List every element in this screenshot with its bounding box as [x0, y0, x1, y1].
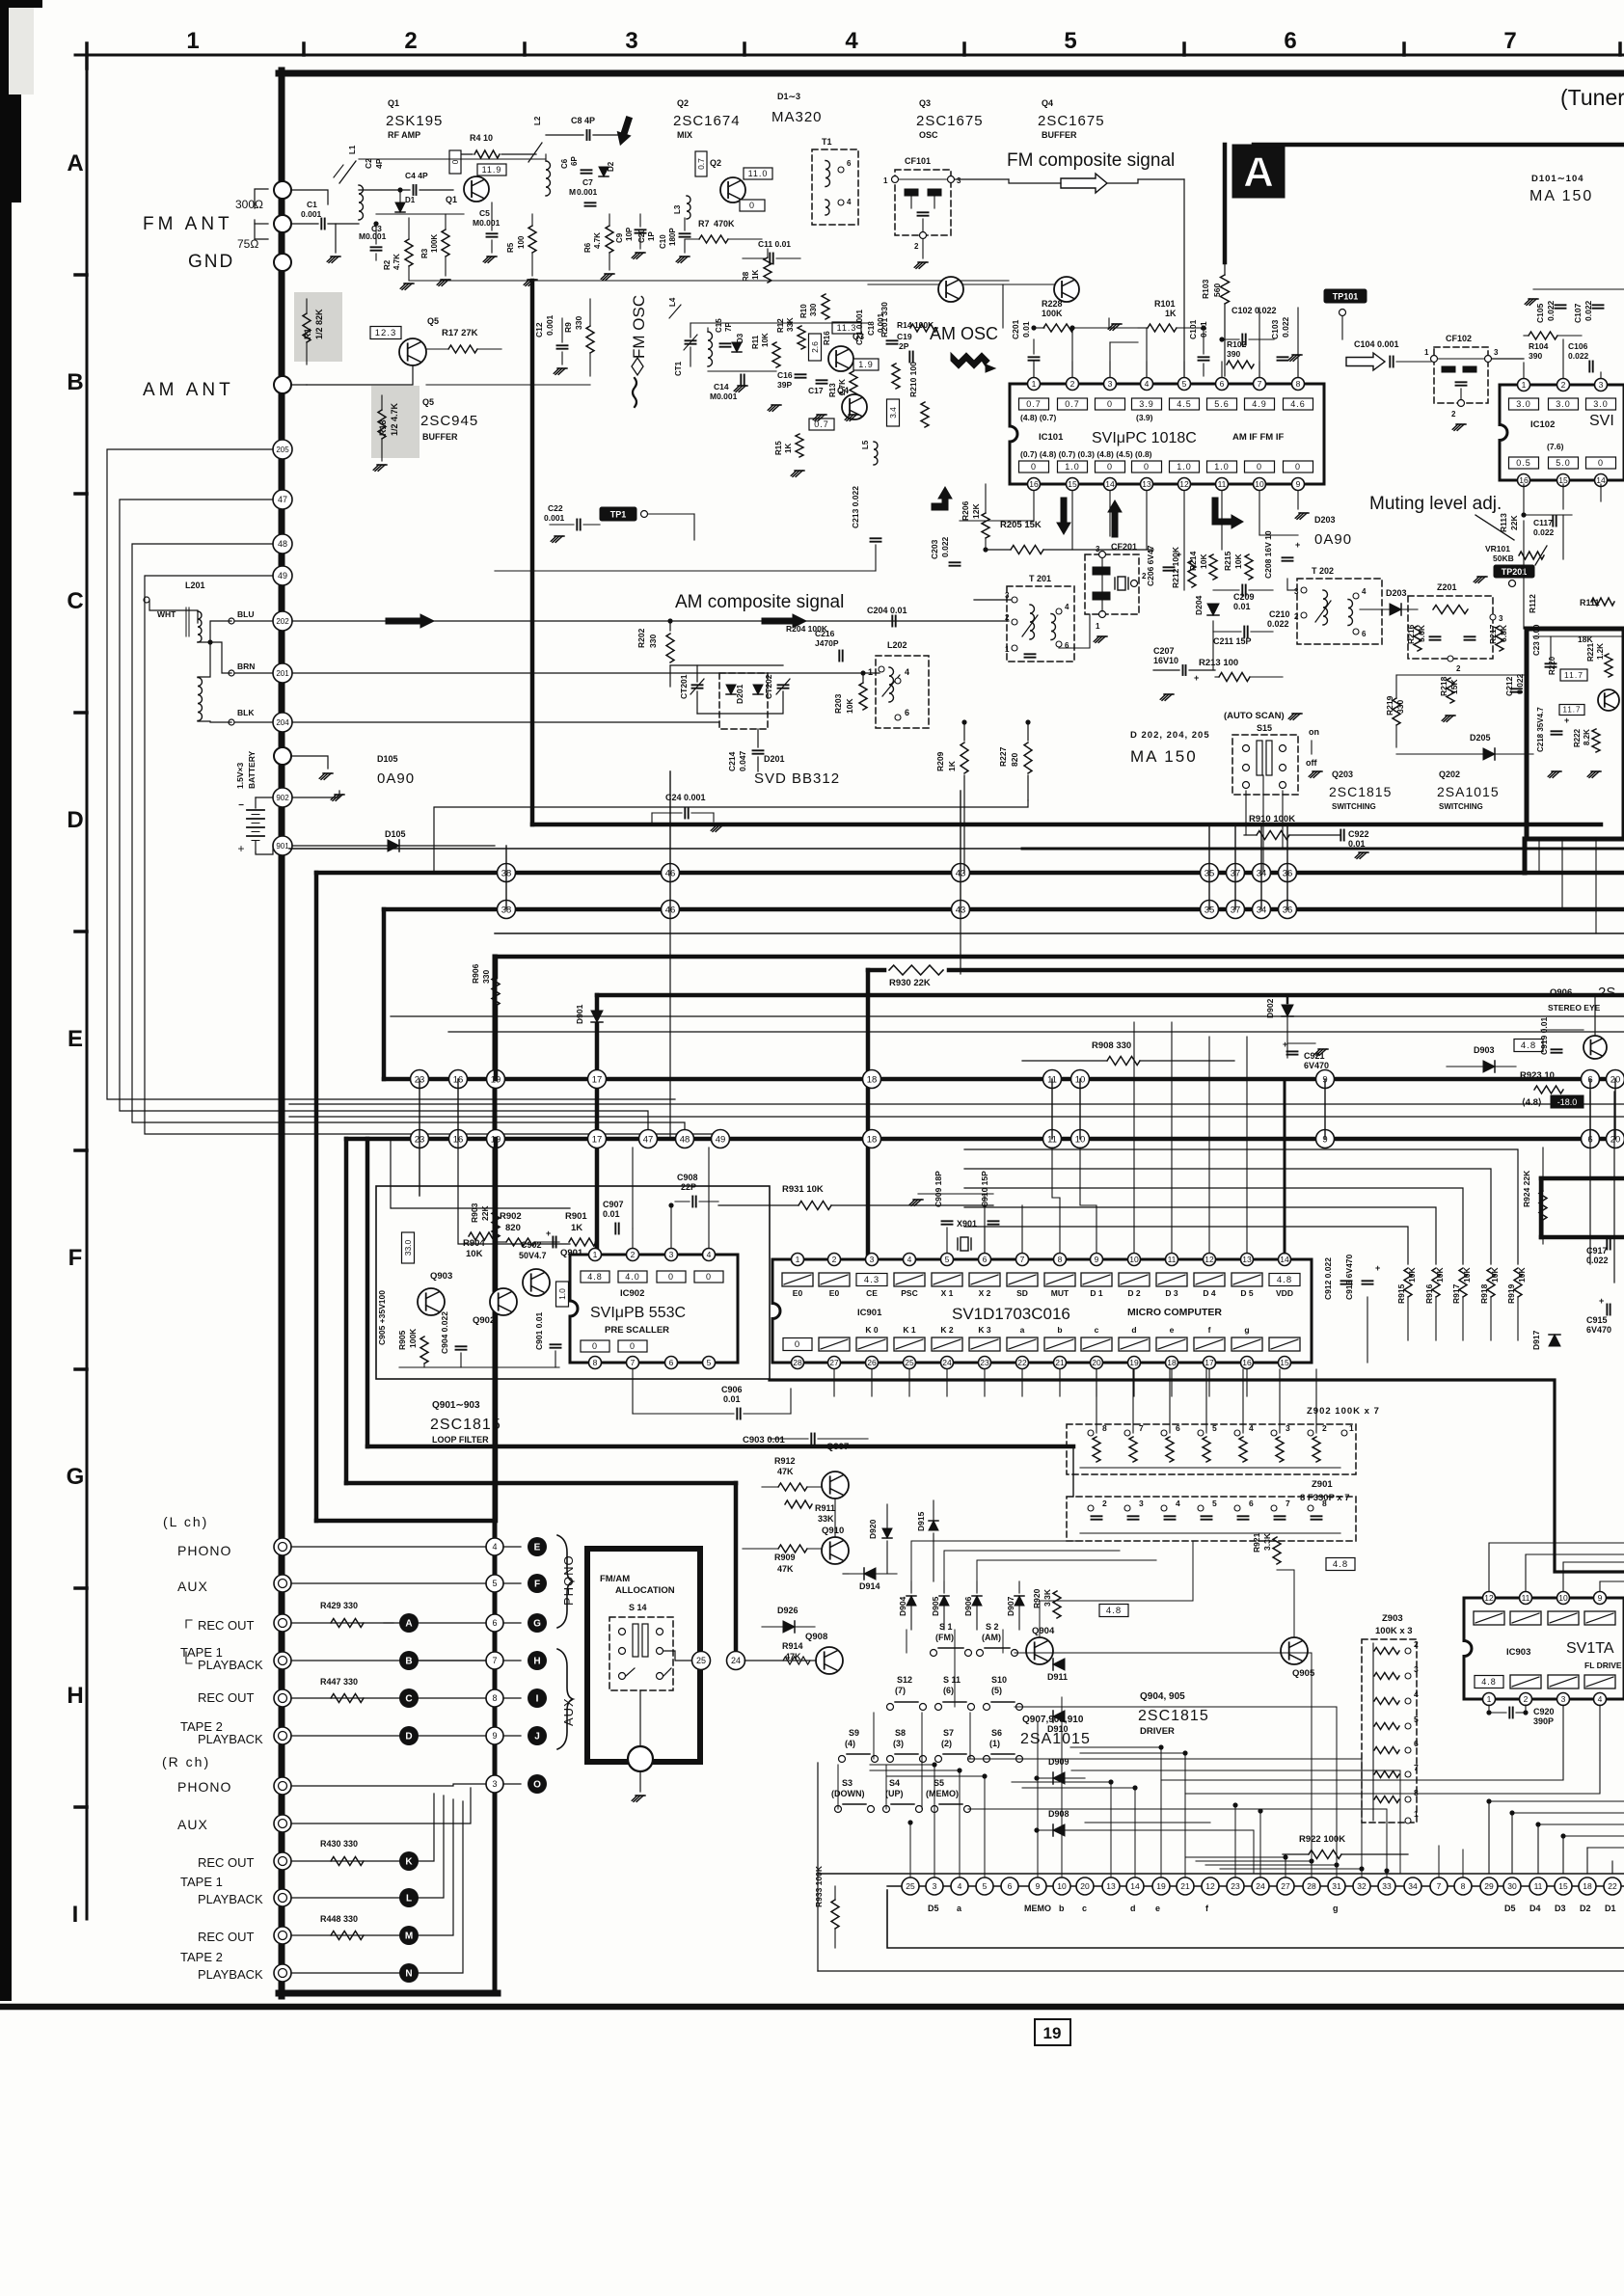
ground: [319, 773, 331, 779]
svg-text:R911: R911: [815, 1503, 835, 1513]
svg-text:1: 1: [1487, 1694, 1492, 1704]
svg-text:R919: R919: [1506, 1283, 1516, 1304]
pin row riser wires: [909, 1823, 911, 1877]
svg-text:SWITCHING: SWITCHING: [1439, 802, 1483, 811]
value 11.3: [832, 322, 861, 334]
svg-text:D904: D904: [898, 1596, 907, 1616]
svg-text:10: 10: [1129, 1255, 1139, 1264]
IC903 pins bottom: [1483, 1693, 1496, 1706]
svg-text:C901 0.01: C901 0.01: [534, 1312, 544, 1350]
svg-text:R910 100K: R910 100K: [1249, 814, 1295, 824]
svg-text:H: H: [533, 1657, 540, 1667]
svg-text:(6): (6): [943, 1686, 954, 1695]
svg-text:b: b: [1059, 1904, 1065, 1913]
svg-text:0.01: 0.01: [1348, 839, 1366, 849]
svg-text:100K: 100K: [1042, 309, 1063, 318]
wire PB2 R: [291, 1972, 399, 1974]
wire CF102 out: [1492, 358, 1524, 360]
svg-text:4: 4: [1249, 1423, 1254, 1433]
svg-text:10P: 10P: [625, 227, 634, 241]
svg-text:(4): (4): [845, 1739, 855, 1748]
svg-text:f: f: [1208, 1325, 1211, 1335]
node C black: [399, 1688, 419, 1708]
svg-text:FM ANT: FM ANT: [143, 214, 233, 234]
IC102 pin wires: [1523, 363, 1525, 378]
value 1.9: [853, 359, 879, 370]
svg-text:1: 1: [186, 28, 199, 54]
wires T201: [974, 599, 1011, 601]
svg-text:24: 24: [731, 1656, 741, 1665]
svg-text:2SC1675: 2SC1675: [916, 113, 984, 129]
svg-text:6V470: 6V470: [1304, 1061, 1329, 1070]
svg-text:REC OUT: REC OUT: [198, 1690, 255, 1705]
page edge black strip: [0, 0, 12, 2001]
svg-text:PHONO: PHONO: [561, 1554, 576, 1606]
svg-text:901: 901: [276, 842, 289, 851]
IC902 box: [570, 1255, 738, 1363]
L201 core: [188, 608, 190, 636]
wires am detector to bus: [1152, 550, 1154, 554]
svg-text:6P: 6P: [570, 156, 579, 166]
svg-text:100K x 3: 100K x 3: [1375, 1626, 1413, 1636]
svg-text:26: 26: [867, 1358, 877, 1367]
svg-text:Q2: Q2: [710, 158, 721, 168]
svg-text:4: 4: [492, 1542, 497, 1552]
wires S15 to bus: [1245, 791, 1247, 835]
svg-text:16: 16: [1242, 1358, 1252, 1367]
svg-text:(5): (5): [991, 1686, 1002, 1695]
svg-text:8.2K: 8.2K: [1583, 729, 1591, 745]
svg-text:R2: R2: [383, 259, 392, 270]
value 4.8 b: [1326, 1558, 1355, 1571]
left ruler line: [86, 55, 89, 1919]
svg-text:2: 2: [631, 1250, 636, 1259]
svg-text:C209: C209: [1233, 592, 1255, 602]
svg-text:D917: D917: [1531, 1330, 1541, 1350]
svg-text:390: 390: [1227, 349, 1240, 359]
wires jack to column: [291, 1546, 486, 1548]
row A wire Q1 gate: [376, 213, 464, 215]
AM composite black arrow 1: [386, 614, 434, 628]
svg-text:e: e: [1170, 1325, 1175, 1335]
ground S15: [1309, 771, 1320, 777]
bus circles row3: [411, 1070, 429, 1089]
svg-text:4: 4: [1065, 603, 1069, 611]
svg-text:330: 330: [574, 316, 583, 330]
svg-text:D902: D902: [1265, 998, 1275, 1018]
bus row2 drop x=398: [382, 909, 387, 1079]
terminal FM ANT 300: [274, 181, 291, 199]
ground C1: [335, 224, 337, 253]
thin staircase below row4 left: [346, 1195, 420, 1197]
svg-text:180P: 180P: [668, 228, 677, 246]
svg-text:CT1: CT1: [674, 361, 683, 376]
svg-text:0.022: 0.022: [1586, 1256, 1609, 1265]
svg-text:22K: 22K: [480, 1205, 490, 1221]
svg-text:CF101: CF101: [905, 156, 931, 166]
svg-text:BLK: BLK: [237, 708, 255, 717]
left ruler tick: [75, 492, 87, 496]
svg-text:(2): (2): [941, 1739, 952, 1748]
IC102 box: [1500, 385, 1624, 480]
svg-text:19: 19: [1156, 1881, 1166, 1891]
svg-text:2: 2: [1005, 613, 1010, 622]
svg-text:D5: D5: [1504, 1904, 1516, 1913]
svg-text:D105: D105: [377, 754, 398, 764]
svg-text:6V470: 6V470: [1586, 1325, 1611, 1335]
svg-text:1P: 1P: [647, 231, 656, 241]
svg-text:0.5: 0.5: [1516, 458, 1531, 468]
value 0.7 q4: [809, 419, 834, 430]
svg-text:47K: 47K: [777, 1467, 794, 1476]
svg-text:4.8: 4.8: [587, 1272, 603, 1282]
svg-text:R221: R221: [1586, 642, 1595, 662]
value 1.0: [556, 1282, 569, 1307]
IC102 pins bottom: [1518, 474, 1530, 487]
bus circles row1: [498, 864, 516, 882]
battery terminal: [274, 747, 291, 765]
jack PB2 R: [274, 1964, 291, 1982]
connector 201: [273, 663, 292, 683]
wire BLU to 202: [229, 618, 234, 624]
svg-text:G: G: [67, 1464, 85, 1490]
svg-text:330: 330: [481, 970, 491, 984]
svg-text:4.8: 4.8: [1481, 1677, 1497, 1687]
svg-text:5: 5: [492, 1579, 497, 1588]
svg-text:902: 902: [276, 794, 289, 802]
wire 43 drop: [960, 909, 961, 974]
svg-text:(4.8) (0.7): (4.8) (0.7): [1020, 413, 1056, 422]
value 11.0: [744, 168, 772, 179]
wire BLK to 204: [229, 719, 234, 725]
Q905 wires: [1293, 1570, 1295, 1637]
svg-text:205: 205: [276, 446, 289, 454]
bottom pin row circles: [902, 1877, 919, 1895]
connector 47: [273, 490, 292, 509]
svg-text:820: 820: [505, 1223, 521, 1233]
svg-text:C22: C22: [548, 503, 563, 513]
row A AGC wire: [409, 280, 1009, 282]
svg-text:TP101: TP101: [1333, 292, 1359, 302]
svg-text:1K: 1K: [784, 444, 793, 453]
svg-text:2: 2: [1456, 664, 1461, 673]
svg-text:4.0: 4.0: [625, 1272, 640, 1282]
svg-text:C9: C9: [615, 232, 624, 243]
svg-text:0.022: 0.022: [1533, 527, 1555, 537]
svg-text:Z201: Z201: [1437, 582, 1457, 592]
svg-text:5: 5: [1064, 28, 1076, 54]
svg-text:0.001: 0.001: [577, 187, 598, 197]
svg-text:R204 100K: R204 100K: [786, 624, 828, 634]
svg-text:Q3: Q3: [919, 98, 931, 108]
svg-text:D3: D3: [1555, 1904, 1566, 1913]
IC901 pins top: [792, 1254, 804, 1266]
bus row1 drop x=328: [314, 873, 319, 1521]
value 33.0: [402, 1232, 415, 1263]
svg-text:0.001: 0.001: [545, 314, 555, 336]
ground right box: [1548, 771, 1559, 777]
bus thick y=1032: [597, 993, 1624, 998]
IC101 voltage boxes bottom: [1019, 461, 1049, 473]
bus FM IF horizontal y=855: [532, 823, 1601, 827]
svg-text:+: +: [1194, 673, 1199, 683]
transistor Q right: [1598, 689, 1619, 711]
svg-text:D105: D105: [385, 829, 406, 839]
svg-text:AUX: AUX: [177, 1817, 208, 1832]
svg-text:11.3: 11.3: [837, 323, 857, 333]
svg-text:C212: C212: [1504, 676, 1514, 696]
wire 202 row: [292, 620, 1009, 622]
value 11.9: [477, 164, 506, 176]
svg-text:4P: 4P: [374, 158, 384, 169]
svg-text:DRIVER: DRIVER: [1140, 1726, 1175, 1737]
transistor Q907: [822, 1472, 849, 1499]
svg-text:R6: R6: [583, 242, 592, 253]
row drops right edge: [1589, 1092, 1591, 1264]
IC901 pins bottom: [792, 1357, 804, 1369]
svg-text:R906: R906: [471, 963, 480, 984]
svg-text:T1: T1: [822, 137, 832, 147]
svg-text:2SC1815: 2SC1815: [430, 1417, 501, 1433]
svg-text:AM ANT: AM ANT: [143, 380, 234, 400]
svg-text:C12: C12: [534, 322, 544, 338]
svg-text:b: b: [1057, 1325, 1062, 1335]
IC102 voltage boxes: [1509, 398, 1539, 410]
bus G row y=1500: [367, 1445, 1073, 1449]
svg-text:1.0: 1.0: [557, 1288, 567, 1300]
L201 coil a: [198, 611, 202, 642]
svg-text:C7: C7: [582, 177, 593, 187]
aux brace: [557, 1649, 573, 1749]
svg-text:4: 4: [707, 1250, 712, 1259]
svg-text:R227: R227: [998, 746, 1008, 767]
wire gnd R228: [1108, 318, 1110, 328]
svg-text:R212 100K: R212 100K: [1171, 546, 1180, 588]
svg-text:2.6: 2.6: [810, 341, 820, 353]
svg-text:C23 0.00: C23 0.00: [1532, 624, 1541, 656]
wires row B to bus: [693, 514, 695, 540]
svg-text:0.022: 0.022: [1546, 300, 1556, 321]
svg-text:0: 0: [668, 1272, 674, 1282]
L201 wires: [198, 642, 231, 673]
node L black: [399, 1888, 419, 1907]
svg-text:D915: D915: [916, 1511, 926, 1531]
grey highlight R18: [371, 386, 420, 458]
svg-text:Q1: Q1: [388, 98, 399, 108]
transistor Q908: [816, 1647, 843, 1674]
svg-text:R214: R214: [1188, 551, 1198, 571]
svg-text:PHONO: PHONO: [177, 1779, 231, 1795]
grey highlight R1: [294, 292, 342, 362]
connector 901: [273, 836, 292, 855]
AM OSC black zigzag arrow: [951, 353, 995, 372]
FM composite hollow arrow: [1061, 174, 1107, 193]
bus corner to phono column: [316, 1519, 495, 1524]
svg-text:100K: 100K: [408, 1328, 418, 1348]
svg-text:4.6: 4.6: [1290, 399, 1306, 409]
svg-text:6: 6: [1065, 641, 1069, 650]
node B black: [399, 1651, 419, 1670]
ruler half tick: [1402, 43, 1406, 55]
jack PB2 L: [274, 1727, 291, 1744]
svg-text:S9: S9: [849, 1728, 859, 1738]
svg-text:K 1: K 1: [903, 1325, 916, 1335]
svg-text:3.4: 3.4: [888, 407, 898, 419]
svg-text:20: 20: [1080, 1881, 1090, 1891]
bottom row wire upper: [818, 1873, 1624, 1875]
svg-text:R10: R10: [799, 304, 808, 318]
transistor Q3b: [828, 346, 853, 371]
IC901 slashed boxes bottom: [783, 1338, 812, 1351]
svg-text:Q906: Q906: [1550, 987, 1572, 998]
svg-text:14: 14: [1280, 1255, 1289, 1264]
svg-text:R222: R222: [1573, 728, 1582, 747]
svg-text:11.7: 11.7: [1563, 706, 1582, 715]
wire 24 to Q908: [744, 1660, 816, 1661]
svg-text:29: 29: [1484, 1881, 1494, 1891]
svg-text:1.0: 1.0: [1065, 462, 1080, 472]
jack REC2 R: [274, 1927, 291, 1944]
svg-text:VR101: VR101: [1485, 544, 1510, 554]
svg-text:S12: S12: [897, 1675, 912, 1685]
svg-text:R905: R905: [397, 1330, 407, 1350]
svg-text:(7): (7): [895, 1686, 906, 1695]
svg-text:BUFFER: BUFFER: [1042, 130, 1077, 140]
svg-text:0.01: 0.01: [1021, 321, 1031, 338]
svg-text:MA 150: MA 150: [1529, 188, 1593, 204]
wire 46 drop to row4: [669, 909, 671, 1139]
wires stereo eye: [1594, 995, 1596, 1036]
svg-text:AM OSC: AM OSC: [930, 324, 998, 343]
svg-text:R916: R916: [1424, 1283, 1434, 1304]
svg-text:J: J: [534, 1732, 540, 1742]
svg-text:100K: 100K: [430, 234, 439, 253]
wire Q5 base: [291, 384, 307, 386]
wire 205 drop: [107, 449, 675, 1099]
bus x=514 down from row4: [494, 1139, 499, 1521]
wire right edge to row: [1611, 1861, 1613, 1874]
svg-text:5: 5: [707, 1358, 712, 1367]
svg-text:OSC: OSC: [919, 130, 938, 140]
svg-text:390P: 390P: [1533, 1716, 1554, 1726]
svg-text:30: 30: [1507, 1881, 1517, 1891]
wire to IC101: [1107, 179, 1138, 183]
svg-text:7: 7: [1139, 1423, 1144, 1433]
svg-text:D901: D901: [575, 1004, 584, 1024]
svg-text:17: 17: [592, 1074, 603, 1085]
node K black: [399, 1851, 419, 1871]
IC101 pins bottom: [1028, 478, 1041, 491]
svg-text:(7.6): (7.6): [1547, 442, 1564, 451]
svg-text:J470P: J470P: [815, 638, 839, 648]
svg-text:F: F: [68, 1245, 83, 1271]
IC901 pin riser wires: [1052, 1148, 1060, 1253]
phono column circles 4-9: [486, 1538, 503, 1555]
svg-text:SD: SD: [1016, 1288, 1028, 1298]
input section right bus x=513: [493, 957, 498, 1993]
svg-text:T 202: T 202: [1312, 566, 1334, 576]
svg-text:0: 0: [1144, 462, 1150, 472]
medium bus y=1431: [770, 1380, 1624, 1572]
svg-text:6: 6: [1008, 1881, 1013, 1891]
svg-text:D906: D906: [963, 1596, 973, 1616]
svg-text:50V4.7: 50V4.7: [519, 1251, 547, 1260]
svg-text:C912 0.022: C912 0.022: [1323, 1257, 1333, 1300]
svg-text:D 5: D 5: [1240, 1288, 1254, 1298]
svg-text:S8: S8: [895, 1728, 906, 1738]
svg-text:25: 25: [906, 1881, 915, 1891]
svg-text:R922 100K: R922 100K: [1299, 1834, 1345, 1845]
svg-text:C: C: [405, 1694, 412, 1705]
svg-text:D907: D907: [1006, 1596, 1015, 1616]
IC102 pin drops: [1523, 484, 1525, 515]
svg-text:0.022: 0.022: [1583, 300, 1593, 321]
svg-text:C101: C101: [1188, 319, 1198, 339]
S14 contacts: [619, 1629, 626, 1635]
svg-text:3: 3: [492, 1779, 497, 1789]
svg-text:3: 3: [1499, 614, 1503, 623]
svg-text:11.0: 11.0: [748, 169, 769, 178]
svg-text:R101: R101: [1154, 299, 1176, 309]
left ruler tick: [75, 711, 87, 715]
svg-text:28: 28: [793, 1358, 802, 1367]
svg-text:CF102: CF102: [1446, 334, 1472, 343]
svg-text:10K: 10K: [1199, 554, 1208, 569]
svg-text:2: 2: [1451, 410, 1456, 419]
bottom row wire: [887, 1885, 1624, 1887]
svg-text:7: 7: [631, 1358, 636, 1367]
FM OSC arrow symbol: [632, 358, 643, 375]
svg-text:8: 8: [1058, 1255, 1063, 1264]
svg-text:19: 19: [1043, 2024, 1062, 2042]
svg-text:O: O: [533, 1780, 541, 1791]
wires FM OSC cluster: [690, 322, 868, 324]
svg-text:REC OUT: REC OUT: [198, 1930, 255, 1944]
IC102 pins top: [1518, 379, 1530, 392]
svg-text:22: 22: [1608, 1881, 1617, 1891]
svg-text:50KB: 50KB: [1493, 554, 1514, 563]
svg-text:6: 6: [983, 1255, 988, 1264]
svg-text:4.8: 4.8: [1106, 1606, 1122, 1616]
bus thin y=968: [495, 932, 1624, 934]
svg-text:23: 23: [980, 1358, 989, 1367]
svg-text:24: 24: [1256, 1881, 1265, 1891]
svg-text:C10: C10: [659, 234, 667, 249]
svg-text:PRE SCALLER: PRE SCALLER: [605, 1325, 669, 1336]
svg-text:17: 17: [1204, 1358, 1214, 1367]
bus thick y=1006 with R930: [868, 968, 884, 973]
svg-text:B: B: [67, 369, 83, 395]
bus row2 y=943: [384, 907, 1624, 912]
wires above IC101: [1071, 328, 1073, 376]
svg-text:11: 11: [1522, 1593, 1530, 1603]
wire WHT: [149, 600, 198, 610]
IC901 box: [772, 1259, 1312, 1363]
dashed box D201: [719, 673, 768, 729]
wire PB1 L to 7: [291, 1660, 487, 1661]
svg-text:C103: C103: [1270, 319, 1280, 339]
value 3.4: [887, 399, 900, 426]
svg-text:33K: 33K: [786, 317, 795, 332]
bus thick y=992: [495, 955, 1624, 959]
svg-text:24: 24: [942, 1358, 952, 1367]
row B Q5 collector wire: [426, 384, 590, 386]
svg-text:IC901: IC901: [857, 1308, 882, 1318]
svg-text:D1: D1: [1605, 1904, 1616, 1913]
svg-text:7: 7: [1503, 28, 1516, 54]
svg-text:12: 12: [1205, 1881, 1215, 1891]
svg-text:4: 4: [1362, 587, 1367, 596]
